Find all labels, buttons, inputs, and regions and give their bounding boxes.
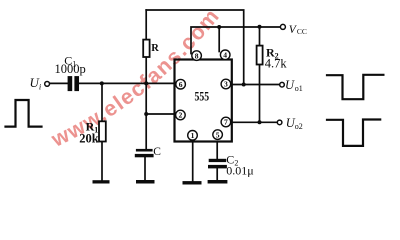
svg-text:CC: CC (297, 27, 307, 36)
svg-text:4.7k: 4.7k (265, 57, 288, 71)
svg-text:o2: o2 (295, 122, 303, 131)
svg-text:3: 3 (224, 80, 228, 89)
svg-text:2: 2 (179, 111, 183, 120)
svg-text:1: 1 (191, 131, 195, 140)
svg-text:o1: o1 (295, 84, 303, 93)
svg-text:4: 4 (223, 51, 227, 60)
svg-text:5: 5 (216, 130, 220, 139)
svg-text:C: C (153, 146, 161, 158)
svg-text:6: 6 (179, 80, 183, 89)
svg-text:R: R (151, 43, 159, 54)
svg-text:0.01μ: 0.01μ (226, 164, 253, 178)
svg-text:U: U (285, 78, 295, 92)
svg-text:1000p: 1000p (55, 62, 86, 76)
svg-text:7: 7 (224, 118, 228, 127)
svg-text:8: 8 (195, 51, 199, 60)
svg-text:20k: 20k (79, 131, 99, 145)
svg-text:555: 555 (195, 90, 210, 104)
